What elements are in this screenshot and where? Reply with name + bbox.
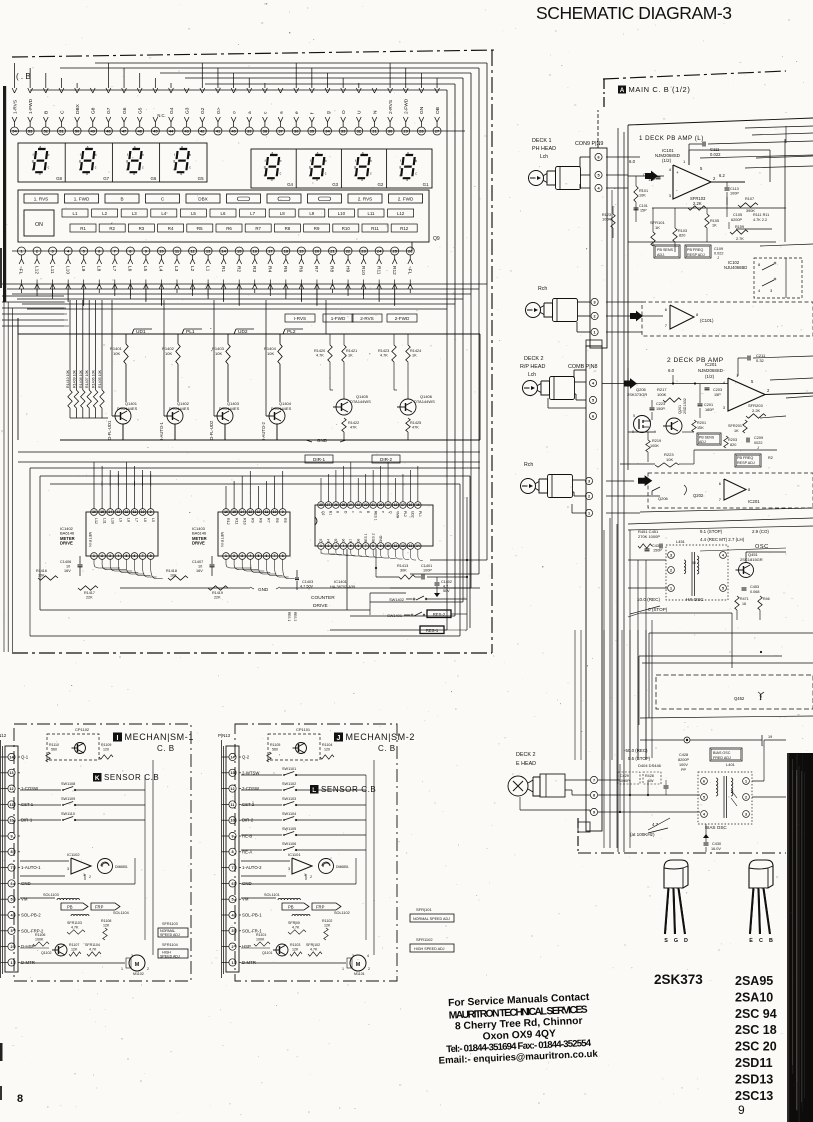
wire row below IC1401 <box>346 549 348 610</box>
svg-text:G3: G3 <box>332 182 338 187</box>
svg-text:15P: 15P <box>648 178 655 182</box>
svg-text:2.2K: 2.2K <box>693 201 702 206</box>
svg-text:R1418: R1418 <box>166 569 177 573</box>
svg-text:PP: PP <box>681 768 687 772</box>
svg-text:4: 4 <box>367 954 369 958</box>
svg-text:L7: L7 <box>111 266 117 272</box>
nested solid corner wires above q452 <box>649 632 813 634</box>
svg-text:15: 15 <box>232 510 236 514</box>
svg-text:R10: R10 <box>342 226 351 231</box>
svg-text:NJU4066BD: NJU4066BD <box>724 265 747 270</box>
svg-text:180P: 180P <box>705 408 714 412</box>
svg-text:1-AUTO-2: 1-AUTO-2 <box>242 865 262 870</box>
svg-text:22: 22 <box>364 503 368 507</box>
button panel <box>18 190 429 242</box>
svg-text:Q9: Q9 <box>433 236 440 242</box>
arrow into amp1 <box>645 171 658 182</box>
svg-text:27: 27 <box>327 503 331 507</box>
svg-text:G: G <box>674 938 678 944</box>
svg-text:1: 1 <box>121 967 123 971</box>
R103 820 <box>673 228 677 242</box>
svg-text:25: 25 <box>392 248 397 253</box>
svg-text:f: f <box>400 159 401 163</box>
svg-text:1: 1 <box>93 554 95 558</box>
svg-text:DECK 2: DECK 2 <box>524 356 543 362</box>
svg-text:9.1 (STOP): 9.1 (STOP) <box>700 529 723 534</box>
svg-text:7: 7 <box>365 544 367 548</box>
svg-text:RES 1: RES 1 <box>373 511 377 521</box>
IC IC1402 METER DRIVE <box>86 512 158 556</box>
svg-text:IC1101: IC1101 <box>288 852 301 857</box>
Rch dashed amp box deck1 <box>642 302 813 336</box>
svg-text:10K: 10K <box>170 574 177 578</box>
svg-text:16V: 16V <box>64 569 71 573</box>
svg-text:14: 14 <box>240 510 244 514</box>
svg-text:100K: 100K <box>650 444 659 448</box>
svg-text:f: f <box>80 153 81 157</box>
svg-text:16: 16 <box>409 503 413 507</box>
svg-text:6.0: 6.0 <box>668 368 675 373</box>
svg-text:L11: L11 <box>368 211 376 216</box>
svg-text:Lch: Lch <box>540 154 548 160</box>
svg-text:2-WTSW: 2-WTSW <box>242 770 260 775</box>
svg-text:SW1105: SW1105 <box>282 827 296 831</box>
BIAS OSC transformer L401 <box>698 772 752 824</box>
svg-text:5: 5 <box>597 173 599 177</box>
svg-text:L5: L5 <box>151 518 155 522</box>
svg-text:4.4 (REC MT) 2.7 (LH): 4.4 (REC MT) 2.7 (LH) <box>700 537 745 542</box>
svg-text:4: 4 <box>722 553 724 557</box>
motor M1102 <box>350 955 366 971</box>
svg-text:6: 6 <box>357 544 359 548</box>
svg-text:7: 7 <box>231 866 233 870</box>
svg-text:d: d <box>406 178 408 182</box>
C113 100P <box>725 187 730 189</box>
svg-text:6.0: 6.0 <box>629 159 636 164</box>
svg-text:2-CDSW: 2-CDSW <box>242 786 260 791</box>
vertical bus right of IC1401 <box>466 497 468 630</box>
C429 1000P dashed <box>618 772 640 784</box>
svg-text:10K: 10K <box>215 351 222 356</box>
svg-text:SW1101: SW1101 <box>282 767 296 771</box>
op-amp IC201b <box>724 479 746 500</box>
svg-text:19: 19 <box>386 503 390 507</box>
svg-text:10K: 10K <box>165 351 172 356</box>
svg-text:100P: 100P <box>730 192 739 196</box>
svg-text:16: 16 <box>92 510 96 514</box>
right-edge exit wires deck1 <box>745 126 813 128</box>
svg-text:C223: C223 <box>656 402 665 406</box>
svg-text:R219: R219 <box>652 439 661 443</box>
amp1 feedback wires <box>688 150 690 165</box>
svg-text:e: e <box>309 173 311 177</box>
svg-text:100K: 100K <box>35 938 44 942</box>
svg-text:SFR|I0I: SFR|I0I <box>288 921 300 925</box>
BIAS OSC FREQ ADJ box <box>710 748 742 761</box>
svg-text:a: a <box>317 151 319 155</box>
svg-text:5: 5 <box>703 795 705 799</box>
svg-text:3: 3 <box>131 954 133 958</box>
svg-text:5: 5 <box>231 898 233 902</box>
svg-text:0.068: 0.068 <box>750 590 760 594</box>
svg-text:G2: G2 <box>377 182 383 187</box>
svg-text:SFR1104: SFR1104 <box>85 943 100 947</box>
svg-text:GND: GND <box>242 881 252 886</box>
svg-text:FRP: FRP <box>95 905 104 910</box>
svg-text:10: 10 <box>9 819 13 823</box>
svg-text:PH HEAD: PH HEAD <box>532 146 556 152</box>
svg-text:8: 8 <box>150 554 152 558</box>
PB SENS ADJ deck2 <box>697 433 721 445</box>
R105 1K <box>705 214 709 228</box>
svg-text:SW1110: SW1110 <box>61 812 75 816</box>
svg-text:VMH: VMH <box>396 511 400 519</box>
transistor Q1404 DTC144ES <box>269 408 285 424</box>
resistor R1403 10K <box>227 334 229 344</box>
svg-text:7: 7 <box>142 554 144 558</box>
svg-text:10K: 10K <box>113 351 120 356</box>
svg-text:R7: R7 <box>267 518 271 523</box>
svg-text:1000P: 1000P <box>619 779 630 783</box>
svg-text:8: 8 <box>10 850 12 854</box>
svg-text:D-HSP: D-HSP <box>21 944 35 949</box>
svg-text:R3: R3 <box>139 226 145 231</box>
Q452 dotted region <box>656 675 813 709</box>
svg-text:100K: 100K <box>602 218 611 222</box>
long frame wires around ICs <box>30 467 480 469</box>
svg-text:ADJ.: ADJ. <box>657 253 665 257</box>
svg-text:FRED ADJ: FRED ADJ <box>713 756 731 760</box>
svg-text:PB SENS: PB SENS <box>657 248 674 252</box>
svg-text:IC1401: IC1401 <box>334 579 348 584</box>
svg-text:L6: L6 <box>143 518 147 522</box>
svg-text:12K: 12K <box>103 924 110 928</box>
wire verticals to IC1402 <box>93 462 95 486</box>
svg-text:SPEED ADJ: SPEED ADJ <box>160 955 180 959</box>
svg-text:1. RVS: 1. RVS <box>34 197 48 202</box>
svg-text:R2: R2 <box>768 456 773 460</box>
svg-text:K: K <box>95 775 100 782</box>
svg-text:R1108: R1108 <box>101 919 111 923</box>
TO-92 package SGD <box>664 860 688 888</box>
svg-text:DRIVE: DRIVE <box>313 603 328 609</box>
svg-text:1: 1 <box>225 554 227 558</box>
svg-text:10: 10 <box>198 565 202 569</box>
svg-text:R5: R5 <box>283 518 287 523</box>
svg-text:SW1109: SW1109 <box>61 797 75 801</box>
svg-text:C113: C113 <box>730 187 739 191</box>
svg-text:PL2: PL2 <box>403 511 407 517</box>
svg-text:2: 2 <box>147 967 149 971</box>
svg-text:g: g <box>264 165 266 169</box>
svg-text:4.7K: 4.7K <box>89 948 97 952</box>
svg-text:FRP: FRP <box>316 905 325 910</box>
svg-text:10K: 10K <box>666 457 673 462</box>
svg-text:820: 820 <box>730 443 736 447</box>
svg-text:14: 14 <box>221 248 226 253</box>
svg-text:R1409 10K: R1409 10K <box>72 369 76 388</box>
svg-text:SW1104: SW1104 <box>282 812 296 816</box>
svg-text:L6: L6 <box>127 266 133 272</box>
svg-text:R11: R11 <box>375 266 381 275</box>
capacitor C103 15P <box>656 176 661 178</box>
R1418 10K <box>168 576 188 580</box>
svg-text:22: 22 <box>346 248 351 253</box>
svg-text:GND: GND <box>379 535 383 543</box>
svg-text:PL2: PL2 <box>287 329 296 335</box>
svg-text:R1413: R1413 <box>397 564 408 568</box>
svg-text:L11: L11 <box>102 518 106 524</box>
svg-text:J: J <box>757 446 759 450</box>
svg-text:4.7K: 4.7K <box>71 926 79 930</box>
svg-text:5: 5 <box>592 398 594 402</box>
svg-text:12: 12 <box>190 248 195 253</box>
svg-text:d: d <box>361 178 363 182</box>
7-segment display group 1 (G8-G5) <box>18 143 207 182</box>
svg-text:3: 3 <box>10 929 12 933</box>
svg-text:100K: 100K <box>256 938 265 942</box>
head symbol <box>526 303 541 318</box>
svg-text:12: 12 <box>9 787 13 791</box>
resistor R1404 10K <box>279 334 281 344</box>
deck2 section top lines <box>627 368 629 470</box>
op-amp U IC101a <box>673 165 711 199</box>
svg-text:b: b <box>189 153 191 157</box>
svg-text:b: b <box>48 153 50 157</box>
svg-text:R1410 10K: R1410 10K <box>66 369 70 388</box>
svg-text:f: f <box>355 159 356 163</box>
svg-text:R12: R12 <box>226 518 230 525</box>
svg-text:2SA95: 2SA95 <box>735 974 773 988</box>
svg-text:9: 9 <box>231 834 233 838</box>
ON button <box>24 210 54 236</box>
svg-text:DTC144ES: DTC144ES <box>219 406 240 411</box>
svg-text:1: 1 <box>745 779 747 783</box>
svg-text:19: 19 <box>299 248 304 253</box>
svg-text:1K: 1K <box>655 225 660 230</box>
svg-text:G6: G6 <box>342 538 346 543</box>
svg-text:R1: R1 <box>80 226 86 231</box>
svg-text:E: E <box>749 938 753 944</box>
svg-text:SFR1103: SFR1103 <box>67 921 82 925</box>
svg-text:g: g <box>309 165 311 169</box>
svg-text:g: g <box>126 159 128 163</box>
svg-text:a: a <box>248 111 253 114</box>
svg-text:10: 10 <box>273 510 277 514</box>
COMB strip cap <box>586 340 602 346</box>
svg-text:2SD13: 2SD13 <box>735 1072 773 1086</box>
left edge artifacts <box>3 86 6 302</box>
svg-text:L3: L3 <box>132 211 137 216</box>
svg-text:HX OSC: HX OSC <box>686 597 704 602</box>
svg-text:+: + <box>676 170 679 175</box>
svg-text:SENSOR C.B: SENSOR C.B <box>321 785 376 794</box>
resistor R1401 10K <box>125 334 127 344</box>
svg-text:10: 10 <box>230 819 234 823</box>
transistor section frame <box>18 333 480 335</box>
svg-text:1 DECK PB AMP (L): 1 DECK PB AMP (L) <box>639 135 704 142</box>
motor driver circle DM6851 <box>98 859 113 874</box>
svg-text:17: 17 <box>401 503 405 507</box>
svg-text:G8: G8 <box>56 176 62 181</box>
svg-text:2SK373: 2SK373 <box>654 972 703 987</box>
sensor cb label mech1 <box>93 773 102 782</box>
svg-text:SW1108: SW1108 <box>61 782 75 786</box>
svg-text:U: U <box>357 110 363 114</box>
svg-text:e: e <box>354 173 356 177</box>
top bus lines <box>95 62 487 64</box>
svg-text:2-FWD: 2-FWD <box>404 98 410 114</box>
bus lines below row 2 <box>2 283 487 285</box>
svg-text:d: d <box>133 172 135 176</box>
svg-text:8200P: 8200P <box>678 758 689 762</box>
svg-text:L8: L8 <box>280 211 285 216</box>
svg-text:G1: G1 <box>423 182 429 187</box>
svg-text:RES 1: RES 1 <box>364 533 368 543</box>
svg-text:3: 3 <box>241 554 243 558</box>
svg-text:L4: L4 <box>158 266 164 272</box>
deck2 rails <box>694 449 777 451</box>
svg-text:RES 2: RES 2 <box>293 612 297 621</box>
svg-text:L12: L12 <box>33 266 39 274</box>
svg-text:L4: L4 <box>161 211 166 216</box>
motor M1101 <box>129 955 145 971</box>
svg-text:Q206: Q206 <box>658 496 669 501</box>
svg-text:560: 560 <box>272 748 278 752</box>
svg-text:1. FWD: 1. FWD <box>74 197 90 202</box>
transistor Q1402 DTC144ES <box>167 408 183 424</box>
svg-text:(at 100KHz): (at 100KHz) <box>630 832 655 837</box>
IC201b dashed box <box>648 473 813 508</box>
svg-text:21: 21 <box>371 503 375 507</box>
svg-text:R1419: R1419 <box>212 591 223 595</box>
svg-text:2: 2 <box>233 554 235 558</box>
svg-text:C: C <box>759 938 763 944</box>
svg-text:L10: L10 <box>110 518 114 524</box>
svg-text:g: g <box>79 159 81 163</box>
right edge black band <box>787 753 813 1122</box>
svg-text:CP1101: CP1101 <box>296 727 311 732</box>
svg-text:16.0V: 16.0V <box>711 847 721 851</box>
C1402 4.7 50V <box>435 582 440 584</box>
svg-text:PB: PB <box>67 905 73 910</box>
op-amp IC201a <box>728 378 765 411</box>
svg-text:BA6146: BA6146 <box>60 531 75 536</box>
svg-text:RE-B: RE-B <box>242 834 252 839</box>
svg-text:G3: G3 <box>184 107 190 114</box>
svg-text:a: a <box>271 151 273 155</box>
svg-text:R1110: R1110 <box>49 743 59 747</box>
svg-text:RES 1: RES 1 <box>287 612 291 621</box>
svg-text:L5: L5 <box>191 211 196 216</box>
svg-text:16: 16 <box>224 510 228 514</box>
svg-text:28: 28 <box>319 503 323 507</box>
svg-text:12K: 12K <box>324 924 331 928</box>
svg-text:17: 17 <box>268 248 273 253</box>
svg-text:16: 16 <box>253 248 258 253</box>
svg-text:2SD1302: 2SD1302 <box>683 398 687 414</box>
svg-text:2-RVS: 2-RVS <box>388 100 394 114</box>
svg-text:Q-2: Q-2 <box>242 755 250 760</box>
mechanism-1 title <box>113 733 122 742</box>
svg-text:1: 1 <box>231 961 233 965</box>
svg-text:B7: B7 <box>349 539 353 543</box>
svg-text:10: 10 <box>159 248 164 253</box>
long verticals deck2 to bias <box>574 630 576 760</box>
svg-text:f: f <box>127 153 128 157</box>
svg-text:8: 8 <box>282 554 284 558</box>
svg-text:9: 9 <box>10 834 12 838</box>
middle vertical bundle to bias section <box>603 530 605 848</box>
svg-text:Rch: Rch <box>524 462 533 468</box>
svg-text:SFR201: SFR201 <box>728 424 742 428</box>
svg-text:b: b <box>142 153 144 157</box>
svg-text:R46: R46 <box>763 597 770 601</box>
svg-text:SW1401: SW1401 <box>387 613 402 618</box>
svg-text:5: 5 <box>350 544 352 548</box>
svg-text:e: e <box>295 111 300 114</box>
svg-text:6.2: 6.2 <box>719 173 725 178</box>
svg-text:8: 8 <box>231 850 233 854</box>
svg-text:12: 12 <box>230 787 234 791</box>
CON9 pins 3 2 1 <box>591 298 598 305</box>
svg-text:E HEAD: E HEAD <box>516 761 536 767</box>
svg-text:10: 10 <box>386 544 390 548</box>
svg-text:OB: OB <box>435 107 441 114</box>
svg-text:2SC 18: 2SC 18 <box>735 1023 777 1037</box>
svg-text:g: g <box>336 511 340 513</box>
svg-text:10: 10 <box>66 565 70 569</box>
svg-text:I-AUTO-2: I-AUTO-2 <box>261 421 266 440</box>
svg-text:C203: C203 <box>713 388 722 392</box>
svg-text:RES-2: RES-2 <box>433 612 446 617</box>
mech1 pin strip <box>5 746 18 972</box>
svg-text:150P: 150P <box>653 549 662 553</box>
svg-text:b: b <box>325 159 327 163</box>
svg-text:CON9 P|N9: CON9 P|N9 <box>575 141 603 147</box>
svg-text:G8: G8 <box>356 538 360 543</box>
svg-text:Q452: Q452 <box>734 696 745 701</box>
svg-text:f: f <box>33 153 34 157</box>
svg-text:4: 4 <box>249 554 251 558</box>
svg-text:1: 1 <box>588 511 590 515</box>
svg-text:L3: L3 <box>173 266 179 272</box>
svg-text:R107: R107 <box>745 197 754 201</box>
svg-text:14: 14 <box>108 510 112 514</box>
svg-text:R101: R101 <box>639 189 648 193</box>
C201 150P <box>698 403 703 405</box>
arrow into Rch amp <box>630 311 643 322</box>
svg-text:L1: L1 <box>204 266 210 272</box>
svg-text:1-AUTO-1: 1-AUTO-1 <box>21 865 41 870</box>
svg-text:I-AUTO-1: I-AUTO-1 <box>159 421 164 440</box>
E head pins 7 8 9 <box>590 776 597 783</box>
head symbol <box>521 479 536 494</box>
svg-text:7: 7 <box>593 778 595 782</box>
svg-text:R1406 10K: R1406 10K <box>92 369 96 388</box>
wires at e head <box>629 780 631 795</box>
svg-text:12K: 12K <box>292 948 299 952</box>
R1416 10K <box>38 576 58 580</box>
svg-text:1: 1 <box>10 961 12 965</box>
svg-text:DTC144ES: DTC144ES <box>117 406 138 411</box>
svg-text:e: e <box>32 167 34 171</box>
svg-text:O-FL-UD2: O-FL-UD2 <box>209 420 214 440</box>
svg-text:2: 2 <box>10 945 12 949</box>
svg-text:2. FWD: 2. FWD <box>398 197 414 202</box>
svg-text:3: 3 <box>335 544 337 548</box>
svg-text:18: 18 <box>284 248 289 253</box>
